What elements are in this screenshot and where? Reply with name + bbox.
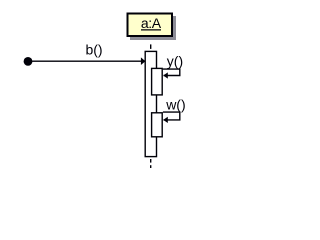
object box a:A shadow [130, 16, 176, 40]
nested activation bar 2 [152, 113, 163, 137]
activation bar (main) [145, 51, 156, 156]
message arrowhead b() [141, 57, 146, 65]
self message arrowhead w() [163, 117, 168, 123]
svg-text:y(): y() [167, 53, 183, 69]
object label underline [141, 29, 161, 31]
lifeline dash (upper) [150, 44, 152, 49]
self message loop w() [163, 112, 180, 120]
svg-text:a:A: a:A [141, 15, 162, 31]
nested activation bar 1 [152, 68, 163, 95]
svg-text:b(): b() [85, 42, 102, 58]
found message circle [24, 57, 33, 66]
lifeline dashes (lower) [150, 159, 152, 163]
object box a:A [128, 14, 173, 37]
message line b() [31, 60, 141, 62]
self message arrowhead y() [163, 72, 168, 78]
svg-text:w(): w() [165, 97, 185, 113]
self message loop y() [163, 69, 180, 75]
